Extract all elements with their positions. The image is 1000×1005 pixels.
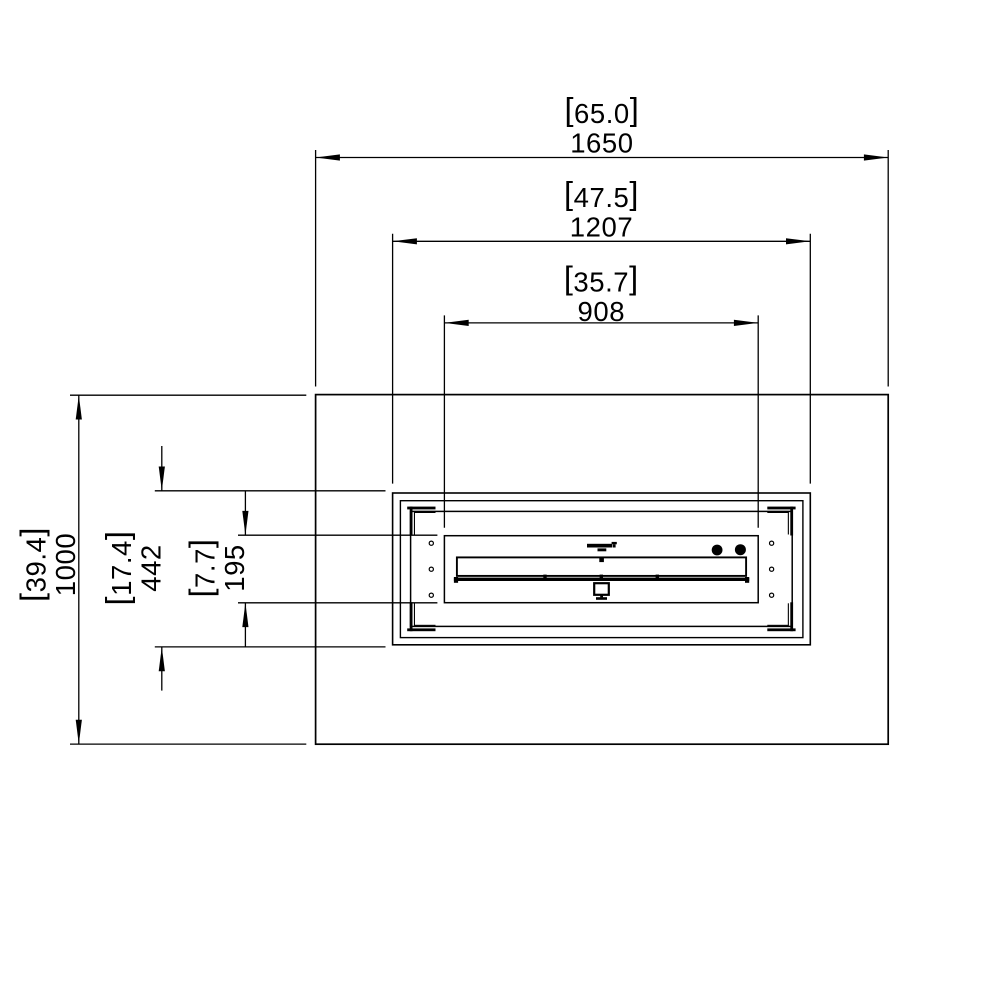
svg-text:1207: 1207: [570, 211, 633, 242]
knob right: [735, 544, 746, 555]
knob left: [712, 545, 723, 556]
dim 1650 arrow left: [316, 154, 340, 160]
dim 1650 line: [316, 157, 889, 159]
svg-text:[47.5]: [47.5]: [564, 176, 639, 214]
dim 442 leader top: [161, 446, 163, 491]
svg-text:[39.4]: [39.4]: [14, 527, 52, 602]
burner box third rect: [411, 511, 793, 626]
dim 908 extension line right: [757, 315, 759, 527]
lip tick right: [656, 575, 659, 581]
dim 1000 extension line bottom: [70, 743, 306, 745]
dim 195 leader bottom: [244, 603, 246, 647]
burner lip bar: [454, 578, 749, 581]
table top outline: [316, 395, 889, 745]
svg-text:195: 195: [219, 544, 250, 592]
screw hole left bottom: [429, 593, 433, 597]
screw hole right bottom: [770, 593, 774, 597]
dim 1650 arrow right: [864, 154, 888, 160]
lip right cap: [745, 577, 749, 583]
dim 442 extension line top: [155, 490, 386, 492]
brand logo: [587, 542, 617, 551]
dim 908 arrow right: [734, 320, 758, 326]
lip left cap: [454, 577, 458, 583]
svg-text:442: 442: [135, 544, 166, 592]
lip tick center: [600, 575, 603, 581]
lip tick left: [543, 575, 546, 581]
svg-text:1000: 1000: [50, 533, 81, 596]
dim 1650 extension line left: [315, 150, 317, 387]
dim 1207 line: [393, 240, 811, 242]
dim 1207 extension line left: [392, 234, 394, 484]
dim 1000 arrow top: [76, 395, 82, 419]
monitor icon: [594, 583, 609, 600]
dim 195 leader top: [244, 491, 246, 535]
dim 1207 arrow left: [393, 238, 417, 244]
screw hole left top: [429, 541, 433, 545]
dim 1207 arrow right: [786, 238, 810, 244]
corner bracket top-right: [767, 507, 795, 536]
dim 195 extension line top: [238, 534, 437, 536]
dim 908 arrow left: [444, 320, 468, 326]
dim 195 arrow top: [242, 511, 248, 535]
svg-text:908: 908: [578, 296, 626, 327]
corner bracket bottom-right: [767, 602, 795, 631]
dim 442 arrow bottom: [159, 647, 165, 671]
svg-text:[65.0]: [65.0]: [564, 92, 639, 130]
dim 442 leader bottom: [161, 647, 163, 691]
dim 908 line: [444, 322, 758, 324]
corner bracket bottom-left: [407, 602, 435, 631]
dim 908 extension line left: [443, 315, 445, 527]
burner tray panel: [444, 536, 758, 603]
pilot square: [599, 557, 604, 562]
svg-text:[35.7]: [35.7]: [564, 260, 639, 298]
burner frame outer rect: [393, 493, 811, 645]
dim 442 arrow top: [159, 467, 165, 491]
dim 1650 extension line right: [887, 150, 889, 387]
dim 1000 extension line top: [70, 394, 306, 396]
dim 1000 arrow bottom: [76, 720, 82, 744]
dim 442 extension line bottom: [155, 646, 386, 648]
svg-text:[17.4]: [17.4]: [99, 531, 137, 606]
svg-text:1650: 1650: [570, 128, 633, 159]
dim 195 extension line bottom: [238, 602, 437, 604]
screw hole right top: [770, 541, 774, 545]
corner bracket top-left: [407, 507, 435, 536]
svg-text:[7.7]: [7.7]: [183, 538, 221, 597]
screw hole left mid: [429, 567, 433, 571]
dim 1000 line: [78, 395, 80, 744]
burner slot: [457, 557, 746, 576]
screw hole right mid: [770, 567, 774, 571]
burner frame second rect: [400, 501, 803, 638]
dim 1207 extension line right: [809, 234, 811, 484]
dim 195 arrow bottom: [242, 603, 248, 627]
